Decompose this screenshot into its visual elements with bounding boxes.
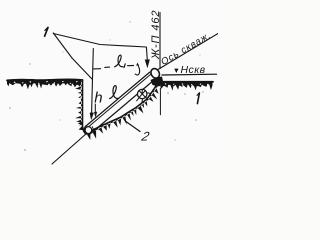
casing tube 2 <box>84 72 155 134</box>
borehole axis upper (Ось скваж.) <box>158 34 218 70</box>
borehole axis extension lower <box>52 133 87 164</box>
h dimension line with arrow <box>90 49 94 120</box>
slope surface <box>86 83 162 140</box>
level mark Нскв <box>162 64 217 76</box>
ground surface left <box>7 79 83 89</box>
svg-text:Нскв: Нскв <box>181 64 206 76</box>
leader A from 1 <box>53 34 146 48</box>
second small arrow (h glyph leg) <box>94 104 97 117</box>
label l (lower) <box>110 86 119 99</box>
hatch texture holes <box>14 82 16 84</box>
label 1 (right) <box>197 93 199 104</box>
ground surface right <box>159 81 214 91</box>
pointer arrow to mouth <box>145 47 149 67</box>
roller under tube <box>137 89 150 102</box>
casing end cap circle <box>85 127 92 134</box>
photocopy specks <box>9 107 11 109</box>
curled arrow at end of l1 line <box>135 64 139 75</box>
leader B from 1 <box>53 33 92 79</box>
svg-text:Ж-П 462: Ж-П 462 <box>150 10 162 60</box>
casing mouth <box>149 67 161 80</box>
label 1 (top) <box>45 27 48 36</box>
dark ground blob below mouth <box>151 77 164 87</box>
pit wall <box>75 80 86 134</box>
dark corner teeth at pit bottom <box>78 121 83 130</box>
vertical rod line for Ж-П 462 <box>159 13 161 69</box>
label 2 with leader <box>126 122 151 144</box>
figure: inclined borehole drilling scheme <box>0 0 218 166</box>
svg-text:h: h <box>94 90 102 107</box>
plumb line below mouth <box>159 88 161 115</box>
label l1 <box>115 55 126 68</box>
dashed l1 dimension line <box>93 66 133 69</box>
